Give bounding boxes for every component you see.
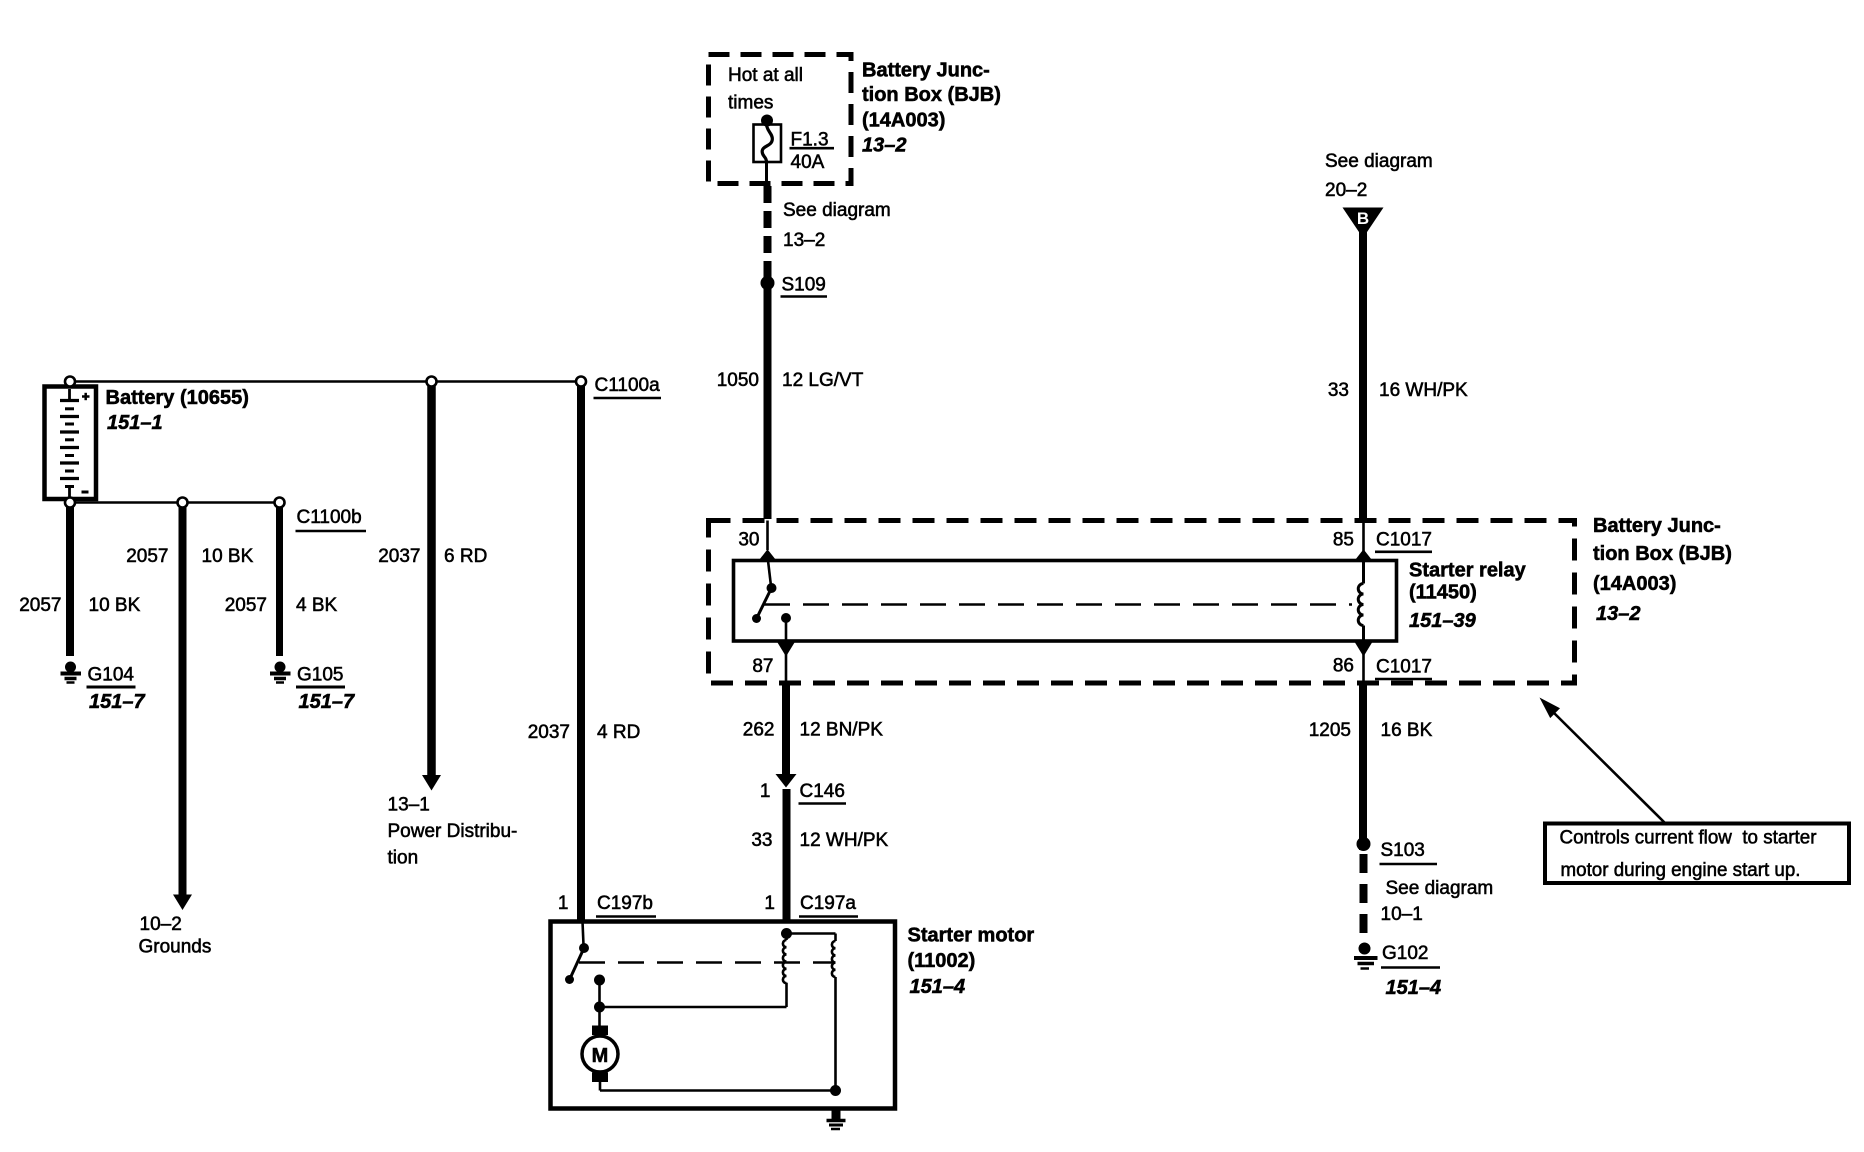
svg-text:M: M [592, 1045, 609, 1067]
svg-text:C1100b: C1100b [297, 507, 362, 528]
svg-text:10 BK: 10 BK [202, 546, 254, 567]
svg-text:(14A003): (14A003) [1593, 573, 1676, 595]
svg-text:C1017: C1017 [1376, 657, 1432, 678]
ground G102 [1359, 943, 1371, 955]
splice S103 [1357, 837, 1371, 851]
label: Hot at all times [728, 65, 803, 114]
wire 262 12 BN/PK [782, 683, 790, 775]
svg-text:(11450): (11450) [1409, 582, 1477, 604]
connector B (triangle) [1343, 208, 1384, 239]
svg-text:1: 1 [558, 893, 569, 914]
connector C146 [776, 774, 797, 788]
svg-text:13–2: 13–2 [862, 135, 907, 157]
label: Battery Junction Box (BJB) (14A003) 13-2 (right) [1593, 515, 1732, 625]
motor switch contact [583, 922, 584, 946]
solenoid hold-in coil [787, 932, 836, 935]
svg-text:Controls current flow to star: Controls current flow to starter [1560, 828, 1818, 849]
svg-text:16 BK: 16 BK [1381, 720, 1433, 741]
svg-text:2057: 2057 [19, 595, 61, 616]
svg-text:S103: S103 [1381, 840, 1425, 861]
battery Battery (10655) [45, 387, 97, 500]
splice S109 [761, 276, 775, 290]
note box [1545, 824, 1849, 884]
svg-text:10–2: 10–2 [140, 914, 182, 935]
svg-text:times: times [728, 93, 773, 114]
wire 33 16 WH/PK [1359, 232, 1367, 521]
pin 85 [1362, 521, 1365, 561]
svg-text:G105: G105 [297, 665, 343, 686]
svg-text:85: 85 [1333, 530, 1354, 551]
svg-text:G104: G104 [88, 665, 135, 686]
wire 2057 10 BK (to G104) [66, 507, 74, 656]
label: See diagram 20-2 [1325, 151, 1433, 201]
motor M [598, 1007, 601, 1026]
svg-text:motor during engine start up.: motor during engine start up. [1561, 860, 1801, 881]
svg-text:C1017: C1017 [1376, 530, 1432, 551]
svg-text:13–2: 13–2 [1596, 603, 1641, 625]
svg-text:G102: G102 [1382, 943, 1428, 964]
svg-text:Grounds: Grounds [139, 937, 212, 958]
svg-text:13–1: 13–1 [388, 795, 430, 816]
svg-text:16 WH/PK: 16 WH/PK [1379, 380, 1468, 401]
relay coil [1362, 561, 1365, 584]
wire 1050 12 LG/VT [764, 283, 772, 519]
svg-text:See diagram: See diagram [1386, 878, 1494, 899]
ground G104 [65, 662, 76, 673]
svg-text:1205: 1205 [1309, 720, 1351, 741]
pin 86 [1355, 642, 1373, 657]
ground (starter motor case) [832, 1109, 841, 1120]
svg-text:2037: 2037 [378, 546, 420, 567]
wire 2037 4 RD [577, 386, 585, 922]
svg-text:Starter motor: Starter motor [908, 925, 1035, 947]
pin 30 [766, 521, 769, 551]
starter relay box [734, 561, 1397, 642]
svg-text:2057: 2057 [225, 595, 267, 616]
svg-text:10 BK: 10 BK [89, 595, 141, 616]
svg-text:151–4: 151–4 [910, 976, 966, 998]
node: C1100a [576, 377, 586, 387]
wire 1205 16 BK [1359, 683, 1367, 850]
wire (dashed): BJB to S109 [764, 186, 772, 280]
svg-text:tion Box (BJB): tion Box (BJB) [862, 84, 1001, 106]
svg-text:33: 33 [751, 830, 772, 851]
svg-text:C197b: C197b [597, 893, 653, 914]
svg-text:C1100a: C1100a [595, 375, 661, 396]
svg-text:1: 1 [764, 893, 775, 914]
fuse box: Battery Junction Box (dashed) [709, 55, 852, 184]
svg-text:151–39: 151–39 [1409, 610, 1477, 632]
svg-text:tion Box (BJB): tion Box (BJB) [1593, 543, 1732, 565]
fuse F1.3 40A [754, 125, 782, 163]
wire 2057 10 BK (to grounds) [179, 507, 187, 895]
svg-text:C197a: C197a [800, 893, 856, 914]
svg-text:30: 30 [738, 530, 759, 551]
node: battery bottom terminal [65, 498, 75, 508]
svg-text:151–7: 151–7 [299, 691, 355, 713]
label: Starter relay (11450) 151-39 [1409, 560, 1527, 633]
svg-text:Power Distribu-: Power Distribu- [388, 821, 518, 842]
wire 2057 4 BK (to G105) [276, 507, 283, 656]
svg-text:12 WH/PK: 12 WH/PK [800, 830, 889, 851]
svg-text:C146: C146 [800, 781, 845, 802]
svg-text:1050: 1050 [717, 370, 759, 391]
svg-text:Battery Junc-: Battery Junc- [862, 60, 990, 82]
node: battery top terminal [65, 377, 75, 387]
wire: fuse to box edge [765, 162, 768, 184]
motor contact branch [594, 975, 605, 986]
svg-text:151–7: 151–7 [89, 691, 145, 713]
wire 33 12 WH/PK [783, 789, 791, 922]
svg-text:13–2: 13–2 [783, 230, 825, 251]
motor ground bus [600, 1089, 836, 1092]
svg-text:262: 262 [743, 720, 775, 741]
label: Battery (10655) 151-1 [106, 387, 249, 434]
svg-text:Hot at all: Hot at all [728, 65, 803, 86]
svg-text:See diagram: See diagram [783, 200, 891, 221]
svg-text:33: 33 [1328, 380, 1349, 401]
relay contact pin 87 [781, 613, 791, 623]
label: See diagram 13-2 [783, 200, 891, 251]
svg-text:(11002): (11002) [908, 950, 976, 972]
ground G105 [275, 662, 286, 673]
battery top wire [70, 380, 581, 383]
svg-text:151–4: 151–4 [1386, 977, 1442, 999]
svg-text:4 RD: 4 RD [597, 722, 640, 743]
svg-text:tion: tion [388, 848, 419, 869]
node [178, 498, 188, 508]
relay mechanical link (dashed) [764, 603, 1352, 606]
motor mechanical link (dashed) [579, 961, 833, 964]
svg-text:Battery (10655): Battery (10655) [106, 387, 249, 409]
svg-text:2057: 2057 [126, 546, 168, 567]
node: fuse top terminal [761, 115, 773, 127]
svg-text:4 BK: 4 BK [296, 595, 338, 616]
svg-text:151–1: 151–1 [107, 412, 163, 434]
svg-text:Starter relay: Starter relay [1409, 560, 1527, 582]
svg-text:10–1: 10–1 [1381, 904, 1423, 925]
node: C1100b [275, 498, 285, 508]
svg-text:87: 87 [752, 656, 773, 677]
wire (dashed) to G102 [1360, 854, 1368, 937]
svg-text:2037: 2037 [528, 722, 570, 743]
solenoid pull-in coil [781, 928, 792, 939]
svg-text:S109: S109 [782, 275, 826, 296]
connector C197a [764, 893, 856, 914]
svg-text:Battery Junc-: Battery Junc- [1593, 515, 1721, 537]
svg-text:See diagram: See diagram [1325, 151, 1433, 172]
note arrow [1550, 709, 1666, 824]
svg-text:20–2: 20–2 [1325, 180, 1367, 201]
main Battery Junction Box (dashed) [709, 521, 1575, 684]
svg-text:86: 86 [1333, 656, 1354, 677]
svg-text:12 BN/PK: 12 BN/PK [800, 720, 884, 741]
relay switch contact [768, 561, 771, 587]
svg-text:6 RD: 6 RD [444, 546, 487, 567]
svg-text:(14A003): (14A003) [862, 110, 945, 132]
label: Starter motor (11002) 151-4 [908, 925, 1035, 999]
svg-text:40A: 40A [791, 152, 825, 173]
connector C197b [558, 893, 653, 914]
svg-text:1: 1 [760, 781, 771, 802]
label: F1.3 / 40A [791, 130, 829, 174]
svg-text:12 LG/VT: 12 LG/VT [782, 370, 864, 391]
node [427, 377, 437, 387]
wire 2037 6 RD [427, 386, 436, 776]
starter motor box [551, 922, 896, 1109]
label: Battery Junction Box (BJB) (14A003) 13-2 (top) [862, 60, 1001, 157]
battery bottom wire [70, 501, 280, 504]
svg-text:B: B [1357, 209, 1369, 228]
